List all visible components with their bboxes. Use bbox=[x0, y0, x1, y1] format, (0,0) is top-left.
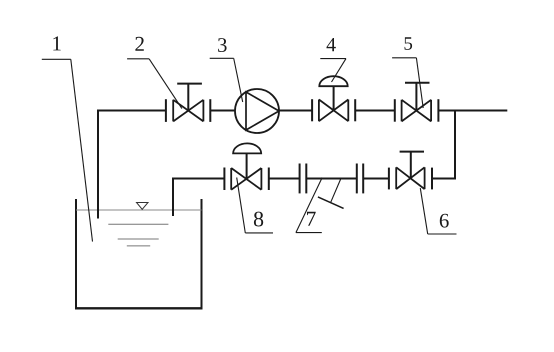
label 2 leader diagonal bbox=[149, 59, 182, 109]
valve V6 body bbox=[396, 167, 424, 189]
label 7 text bbox=[307, 212, 316, 226]
pump P3 triangle bbox=[246, 92, 279, 130]
label 5 text bbox=[405, 37, 413, 50]
valve V2 left flange bbox=[165, 99, 167, 122]
label 6 leader diagonal bbox=[420, 188, 427, 234]
label 5 leader underline bbox=[392, 57, 416, 59]
label 4 leader underline bbox=[320, 58, 346, 60]
wire bottom pipe: valve6 to corner bbox=[432, 178, 456, 180]
valve V2 handle bar bbox=[177, 83, 202, 85]
label 8 text bbox=[254, 212, 263, 227]
valve V8 left flange bbox=[223, 168, 225, 191]
valve V6 stem bbox=[410, 152, 412, 179]
valve V2 body (gate valve 2) bbox=[173, 100, 203, 122]
label 8 leader diagonal bbox=[237, 178, 246, 233]
label 7 leader underline bbox=[296, 232, 322, 234]
valve V5 body bbox=[402, 100, 432, 122]
water level line bbox=[76, 209, 202, 211]
label 2 leader underline bbox=[127, 58, 149, 60]
valve V4 stem bbox=[333, 86, 335, 110]
valve V5 left flange bbox=[394, 99, 396, 122]
valve V8 right flange bbox=[268, 168, 270, 191]
valve V8 stem bbox=[246, 153, 248, 179]
tank left wall bbox=[75, 199, 77, 309]
label 4 leader diagonal bbox=[332, 59, 347, 82]
valve V2 stem bbox=[187, 84, 189, 111]
valve V4 body bbox=[319, 100, 348, 122]
label 3 leader diagonal bbox=[234, 58, 243, 102]
valve V4 actuator dome bbox=[319, 76, 347, 86]
label 7 second leader diagonal bbox=[331, 179, 341, 203]
wire bottom pipe: union1 to union2 bbox=[306, 178, 357, 180]
wire right vertical connector bbox=[454, 111, 456, 180]
label 8 leader underline bbox=[245, 232, 273, 234]
valve V8 body bbox=[231, 168, 261, 190]
valve V2 right flange bbox=[209, 99, 211, 122]
label 1 text bbox=[53, 36, 60, 50]
valve V8 actuator dome bbox=[233, 143, 261, 153]
label 5 leader diagonal bbox=[416, 58, 423, 108]
wire top pipe: corner to valve2 bbox=[97, 110, 166, 112]
wire top pipe: pump to valve4 bbox=[279, 110, 312, 112]
label 1 leader diagonal bbox=[71, 59, 93, 241]
water shading line 1 bbox=[108, 223, 168, 225]
wire bottom pipe: corner to valve8 bbox=[172, 178, 224, 180]
pump P3 circle bbox=[235, 89, 279, 133]
label 1 leader underline bbox=[42, 58, 71, 60]
label 2 text bbox=[135, 37, 143, 51]
water shading line 2 bbox=[118, 238, 159, 240]
union U7b tick 2 bbox=[362, 164, 364, 194]
wire bottom pipe: union2 to valve6 bbox=[363, 178, 389, 180]
wire bottom pipe: valve8 to union1 bbox=[269, 178, 300, 180]
union U7b tick 1 bbox=[356, 164, 358, 194]
valve V5 handle bar bbox=[405, 82, 430, 84]
label 4 text bbox=[327, 38, 336, 51]
label 7 second leader tick bbox=[318, 197, 344, 209]
tank bottom bbox=[75, 307, 203, 309]
label 6 leader underline bbox=[428, 233, 457, 235]
valve V6 handle bar bbox=[400, 151, 424, 153]
union U7a tick 1 bbox=[299, 164, 301, 194]
label 6 text bbox=[440, 214, 449, 228]
discharge pipe vertical into tank bbox=[172, 178, 174, 217]
wire top pipe: valve4 to valve5 bbox=[355, 110, 395, 112]
valve V5 right flange bbox=[437, 99, 439, 122]
suction pipe vertical bbox=[97, 110, 99, 219]
union U7a tick 2 bbox=[305, 164, 307, 194]
label 3 text bbox=[218, 38, 227, 52]
valve V5 stem bbox=[415, 83, 417, 111]
valve V6 left flange bbox=[388, 168, 390, 190]
water level triangle bbox=[137, 203, 149, 210]
wire top pipe: valve5 to right end bbox=[438, 110, 507, 112]
valve V4 right flange bbox=[354, 99, 356, 121]
label 7 leader diagonal bbox=[296, 178, 322, 233]
wire top pipe: valve2 to pump bbox=[210, 110, 235, 112]
label 3 leader underline bbox=[210, 57, 234, 59]
water shading line 3 bbox=[127, 245, 150, 247]
valve V4 left flange bbox=[311, 99, 313, 121]
tank right wall bbox=[201, 199, 203, 309]
valve V6 right flange bbox=[431, 168, 433, 190]
